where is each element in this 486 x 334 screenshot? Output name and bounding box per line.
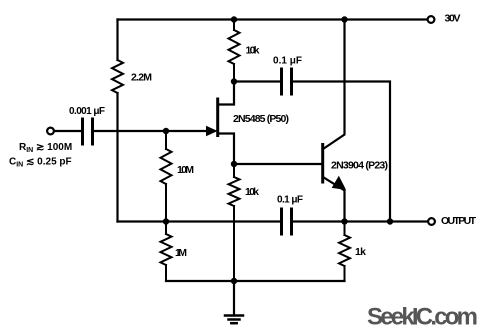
wire gate line (94, 130, 206, 132)
wire cap feed top (234, 80, 280, 82)
resistor R6 1k (339, 222, 350, 282)
wire output line (293, 220, 428, 222)
svg-text:10k: 10k (245, 186, 259, 198)
capacitor C1 0.001 uF (83, 119, 93, 144)
capacitor C3 0.1 uF bottom (282, 209, 292, 234)
terminal OUTPUT circle (428, 218, 435, 225)
wire cap to right column (293, 82, 390, 222)
svg-text:2N5485 (P50): 2N5485 (P50) (233, 113, 289, 125)
wire base line (234, 163, 321, 165)
node bottom rail dot (231, 278, 237, 284)
svg-text:0.1 μF: 0.1 μF (277, 195, 303, 206)
node emitter output dot (341, 218, 347, 224)
wire top rail (118, 18, 428, 20)
svg-text:1k: 1k (355, 246, 366, 258)
svg-text:30V: 30V (445, 13, 461, 25)
resistor R1 2.2M (112, 60, 123, 93)
svg-text:10k: 10k (246, 45, 260, 57)
resistor R2 10M (161, 131, 172, 222)
terminal input circle (47, 128, 54, 135)
wire input lead (55, 130, 82, 132)
terminal 30V circle (428, 16, 435, 23)
svg-text:OUTPUT: OUTPUT (441, 215, 477, 227)
wire bootstrap line left (118, 220, 281, 222)
node bootstrap junction dot (163, 218, 169, 224)
resistor R3 1M (161, 222, 172, 282)
svg-text:2.2M: 2.2M (131, 72, 152, 84)
svg-text:2N3904 (P23): 2N3904 (P23) (331, 160, 388, 172)
svg-text:SeekIC.com: SeekIC.com (367, 304, 478, 331)
node right column output dot (387, 218, 393, 224)
capacitor C2 0.1 uF top (282, 69, 292, 94)
svg-text:10M: 10M (177, 164, 194, 176)
transistor Q1 2N5485 JFET (207, 82, 235, 165)
node source junction dot (231, 161, 237, 167)
node gate junction dot (163, 128, 169, 134)
svg-text:1M: 1M (175, 247, 187, 259)
node top rail 10k dot (231, 16, 237, 22)
ground (225, 281, 243, 323)
resistor R4 10k top (229, 20, 240, 82)
wire left rail vertical (116, 20, 118, 222)
transistor Q2 2N3904 BJT (323, 20, 346, 222)
node drain junction dot (231, 78, 237, 84)
svg-text:0.1 μF: 0.1 μF (273, 56, 302, 67)
svg-text:0.001 μF: 0.001 μF (69, 106, 105, 117)
node collector top dot (341, 16, 347, 22)
resistor R5 10k bottom (229, 164, 240, 281)
wire bottom rail (166, 280, 345, 282)
